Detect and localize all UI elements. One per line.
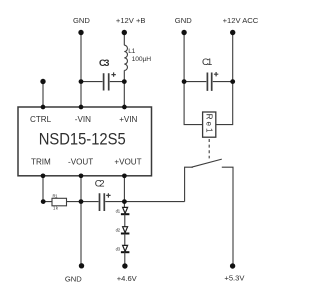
junction C3 left — [79, 79, 84, 84]
wire switch to +VOUT node — [124, 201, 184, 203]
svg-text:GND: GND — [65, 274, 82, 283]
svg-text:+4.6V: +4.6V — [117, 274, 138, 283]
capacitor C2 plus sign — [106, 193, 110, 197]
node +12V +B terminal — [122, 30, 127, 35]
junction C1 right — [230, 79, 235, 84]
wire +VOUT rail — [123, 176, 125, 208]
svg-text:R1: R1 — [53, 194, 59, 199]
capacitor C1 plates — [207, 73, 211, 91]
node GND top-left terminal — [78, 30, 83, 35]
svg-text:C1: C1 — [202, 57, 212, 68]
wire R1 leads — [43, 201, 81, 203]
node +4.6V terminal — [122, 263, 127, 268]
svg-text:d3: d3 — [116, 246, 121, 251]
wire C3 branch — [81, 81, 124, 83]
junction C3 right — [122, 79, 127, 84]
node CTRL stub terminal — [40, 79, 45, 84]
svg-text:-VOUT: -VOUT — [68, 157, 93, 166]
wire between D2 D3 — [124, 234, 126, 246]
svg-text:-VIN: -VIN — [75, 115, 91, 124]
svg-text:NSD15-12S5: NSD15-12S5 — [39, 131, 126, 149]
pin -VOUT — [79, 173, 84, 178]
junction -VOUT / C2 — [79, 199, 84, 204]
node GND top-right terminal — [181, 30, 186, 35]
svg-text:C2: C2 — [95, 178, 105, 189]
inductor L1 — [124, 45, 127, 70]
capacitor C2 plates — [100, 193, 105, 211]
node GND bottom terminal — [79, 263, 84, 268]
svg-text:d2: d2 — [116, 228, 121, 233]
relay Re1 coil body — [203, 112, 216, 137]
svg-text:+VIN: +VIN — [119, 115, 137, 124]
wire TRIM stub — [42, 176, 44, 202]
wire C1 branch — [184, 81, 233, 83]
pin CTRL — [41, 105, 46, 110]
capacitor C3 plates — [104, 73, 109, 90]
switch S1 right terminal — [222, 167, 233, 266]
relay Re1 dashed actuator link — [208, 139, 210, 158]
svg-text:+VOUT: +VOUT — [114, 157, 141, 166]
diode D2 — [123, 227, 128, 233]
junction TRIM / R1 — [41, 199, 46, 204]
junction C1 left — [182, 79, 187, 84]
resistor R1 body — [52, 198, 67, 206]
wire between D1 D2 — [124, 214, 126, 227]
pin +VIN — [122, 105, 127, 110]
svg-text:+12V ACC: +12V ACC — [223, 16, 259, 25]
wire D3 to +4.6V terminal — [124, 252, 126, 266]
capacitor C3 plus sign — [111, 72, 115, 76]
diode D3 — [123, 245, 128, 251]
wire C2 branch — [81, 201, 124, 203]
pin TRIM — [41, 173, 46, 178]
svg-text:L1: L1 — [128, 48, 135, 55]
wire GND right rail — [184, 33, 203, 125]
svg-text:+5.3V: +5.3V — [224, 274, 245, 283]
capacitor C1 plus sign — [214, 72, 218, 76]
svg-text:+12V +B: +12V +B — [116, 16, 146, 25]
node +12V ACC terminal — [230, 30, 235, 35]
switch S1 blade — [192, 159, 222, 167]
svg-text:C3: C3 — [99, 58, 109, 69]
wire GND left rail — [80, 33, 82, 108]
pin -VIN — [79, 105, 84, 110]
svg-text:CTRL: CTRL — [30, 115, 52, 124]
wire -VOUT to GND rail — [80, 176, 82, 266]
diode D1 — [123, 207, 128, 213]
svg-text:Re1: Re1 — [205, 114, 214, 133]
svg-text:GND: GND — [175, 16, 192, 25]
pin +VOUT — [122, 173, 127, 178]
svg-text:GND: GND — [73, 16, 90, 25]
switch S1 left terminal — [185, 167, 193, 201]
svg-text:100µH: 100µH — [132, 56, 152, 63]
wire +12V +B rail top — [123, 33, 125, 46]
wire +12V +B rail bottom — [123, 70, 125, 107]
converter module U1 body — [18, 107, 152, 176]
svg-text:TRIM: TRIM — [31, 157, 51, 166]
junction +VOUT / C2 / switch — [122, 199, 127, 204]
wire CTRL stub — [42, 82, 44, 108]
svg-text:d1: d1 — [116, 208, 121, 213]
node +5.3V terminal — [230, 263, 235, 268]
wire +12V ACC rail — [216, 33, 233, 125]
